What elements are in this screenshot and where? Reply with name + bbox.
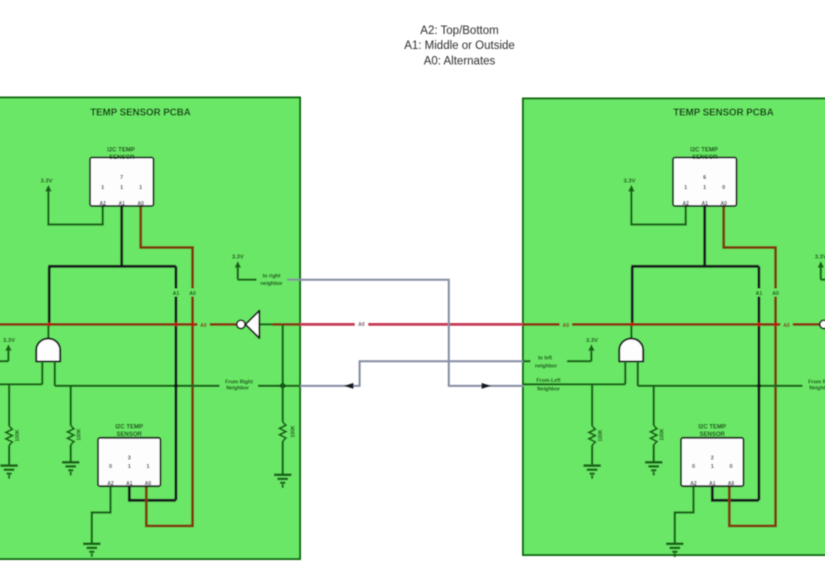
svg-text:100K: 100K (290, 425, 296, 437)
svg-text:A0: A0 (145, 481, 152, 487)
svg-text:1: 1 (128, 464, 131, 470)
svg-text:A1: A1 (756, 291, 763, 297)
svg-text:100K: 100K (15, 429, 21, 441)
svg-text:A0: A0 (783, 323, 790, 329)
svg-text:From-Left: From-Left (536, 378, 560, 384)
svg-text:3.3V: 3.3V (3, 338, 15, 344)
svg-text:A0: A0 (189, 291, 196, 297)
svg-text:Neighbor: Neighbor (226, 385, 249, 391)
svg-text:A1: Middle or Outside: A1: Middle or Outside (404, 40, 515, 52)
svg-text:3.3V: 3.3V (815, 255, 825, 261)
svg-text:A2: A2 (682, 201, 689, 207)
svg-text:100K: 100K (659, 428, 665, 440)
svg-text:1: 1 (684, 185, 687, 191)
svg-text:A0: A0 (562, 323, 569, 329)
svg-text:SENSOR: SENSOR (700, 432, 726, 438)
svg-text:A1: A1 (173, 291, 180, 297)
svg-text:neighbor: neighbor (535, 363, 557, 369)
svg-text:3.3V: 3.3V (232, 255, 244, 261)
svg-text:From Right: From Right (808, 379, 825, 385)
svg-text:1: 1 (711, 464, 714, 470)
svg-text:SENSOR: SENSOR (109, 155, 135, 161)
svg-text:0: 0 (722, 185, 725, 191)
svg-text:SENSOR: SENSOR (117, 432, 143, 438)
svg-text:3.3V: 3.3V (41, 178, 53, 184)
svg-text:1: 1 (703, 185, 706, 191)
svg-text:0: 0 (692, 464, 695, 470)
svg-text:2: 2 (711, 455, 714, 461)
svg-text:3.3V: 3.3V (624, 178, 636, 184)
svg-text:1: 1 (139, 185, 142, 191)
svg-text:A0: A0 (720, 201, 727, 207)
svg-text:A2: A2 (99, 201, 106, 207)
svg-text:I2C TEMP: I2C TEMP (107, 148, 135, 154)
svg-text:SENSOR: SENSOR (692, 155, 718, 161)
svg-text:A2: Top/Bottom: A2: Top/Bottom (420, 25, 498, 37)
svg-text:A0: Alternates: A0: Alternates (424, 55, 496, 67)
svg-text:6: 6 (703, 175, 706, 181)
svg-text:A0: A0 (728, 481, 735, 487)
svg-text:A1: A1 (701, 201, 708, 207)
svg-text:From Right: From Right (225, 379, 253, 385)
svg-text:TEMP SENSOR PCBA: TEMP SENSOR PCBA (673, 107, 773, 118)
svg-text:A1: A1 (709, 481, 716, 487)
svg-text:A0: A0 (358, 322, 365, 328)
svg-text:I2C TEMP: I2C TEMP (698, 424, 726, 430)
svg-text:I2C TEMP: I2C TEMP (690, 148, 718, 154)
svg-text:TEMP SENSOR PCBA: TEMP SENSOR PCBA (90, 107, 190, 118)
svg-text:neighbor: neighbor (260, 281, 282, 287)
svg-text:1: 1 (101, 185, 104, 191)
svg-text:to left: to left (538, 356, 552, 362)
svg-text:A1: A1 (126, 481, 133, 487)
svg-text:I2C TEMP: I2C TEMP (115, 424, 143, 430)
svg-text:0: 0 (729, 464, 732, 470)
svg-text:A2: A2 (690, 481, 697, 487)
svg-text:A2: A2 (107, 481, 114, 487)
svg-text:Neighbor: Neighbor (537, 387, 560, 393)
svg-text:to right: to right (263, 273, 281, 279)
svg-text:A0: A0 (200, 323, 207, 329)
svg-text:0: 0 (109, 464, 112, 470)
svg-text:100K: 100K (598, 429, 604, 441)
svg-text:3: 3 (128, 455, 131, 461)
svg-text:1: 1 (146, 464, 149, 470)
svg-text:A1: A1 (118, 201, 125, 207)
svg-text:3.3V: 3.3V (586, 338, 598, 344)
svg-text:Neighbor: Neighbor (809, 385, 825, 391)
svg-text:100K: 100K (76, 428, 82, 440)
svg-text:1: 1 (120, 185, 123, 191)
svg-text:A0: A0 (137, 201, 144, 207)
svg-text:7: 7 (120, 175, 123, 181)
svg-text:A0: A0 (772, 291, 779, 297)
